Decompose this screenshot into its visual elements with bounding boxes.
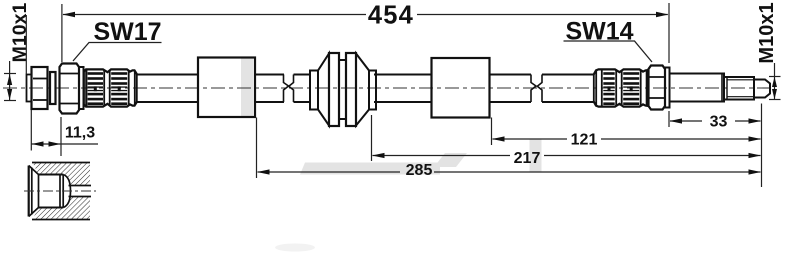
tip cap: [754, 80, 770, 98]
dim 454 extension right: [668, 3, 670, 63]
hose segment B: [255, 75, 284, 103]
dim 121 extension left: [491, 118, 493, 146]
hose break left: [284, 75, 294, 103]
left ferrule crimp bars: [88, 72, 128, 105]
svg-text:SW17: SW17: [93, 18, 161, 46]
right ferrule: [594, 69, 649, 106]
svg-text:121: 121: [571, 132, 598, 149]
svg-text:M10x1: M10x1: [9, 3, 31, 63]
dim 33 arrows: [670, 118, 683, 123]
grommet left cone: [318, 54, 329, 126]
hose segment A: [136, 75, 198, 103]
dim M10 left line: [9, 61, 11, 101]
right ferrule bottom profile: [594, 102, 649, 107]
grommet valley: [339, 60, 346, 119]
dim M10 right line: [774, 63, 776, 100]
right hex nut SW14: [649, 66, 666, 110]
left fitting step collar: [50, 72, 56, 104]
grommet right cone: [356, 54, 369, 126]
detail outline: [29, 163, 91, 220]
hose segment C: [294, 75, 312, 103]
hose segment D: [374, 75, 431, 103]
dim 11,3 line: [31, 143, 98, 145]
leader SW14: [564, 41, 653, 62]
left ferrule bottom profile: [84, 102, 137, 107]
dim 217 extension left: [371, 115, 373, 161]
hose segment E: [490, 75, 532, 103]
detail section view: [24, 163, 96, 220]
left ferrule top profile: [84, 69, 137, 74]
svg-text:33: 33: [710, 114, 728, 131]
watermark band on block1: [241, 58, 253, 117]
dim 454 arrows: [63, 12, 76, 17]
hose segment F: [542, 75, 594, 103]
svg-text:11,3: 11,3: [65, 125, 95, 142]
detail centerline: [24, 190, 96, 192]
bracket block 2: [432, 58, 490, 118]
dim 217 line: [373, 155, 761, 157]
watermark faint smudge bottom: [275, 244, 315, 252]
right ferrule rails: [601, 71, 603, 106]
dim 121 arrows: [492, 136, 505, 141]
bracket block 1: [198, 58, 255, 118]
left ferrule: [84, 69, 137, 106]
dim 217 arrows: [372, 153, 385, 158]
leader SW17: [73, 43, 162, 62]
dim 11,3 extension left: [30, 110, 32, 151]
dim 285 arrows: [257, 169, 270, 174]
M10 label stem line: [25, 15, 27, 74]
right ferrule crimp bars: [603, 72, 639, 105]
dim 33 line: [670, 120, 761, 122]
hose break right: [531, 75, 542, 103]
shaft: [670, 74, 725, 102]
centerline: [3, 87, 773, 89]
dim M10 left arrows: [7, 74, 12, 85]
dim M10 right ticks: [769, 77, 781, 100]
svg-text:M10x1: M10x1: [756, 2, 778, 63]
master right extension line: [761, 104, 763, 188]
threaded section: [724, 77, 754, 100]
dim 11,3 extension right: [60, 117, 62, 156]
svg-text:285: 285: [406, 162, 433, 179]
grommet right cylinder: [369, 71, 376, 110]
grommet rib 1: [329, 53, 339, 126]
dim 285 line: [258, 171, 761, 173]
watermark slab: [300, 163, 440, 175]
grommet rib 2: [346, 53, 356, 126]
watermark rhombus: [434, 153, 467, 167]
right ferrule top profile: [594, 69, 649, 74]
grommet left cylinder: [310, 71, 318, 110]
left ferrule rails: [103, 71, 105, 106]
dim 121 line: [493, 138, 761, 140]
detail hatch top: [33, 163, 91, 186]
dim 454 extension left: [61, 4, 63, 62]
dim M10 left ticks: [4, 74, 16, 101]
left fitting pipe tip: [27, 75, 32, 102]
dim 454 line: [63, 14, 668, 16]
svg-text:454: 454: [368, 2, 414, 30]
watermark vertical band: [530, 139, 542, 172]
detail hatch bottom: [33, 197, 91, 220]
dim 33 extension left: [668, 111, 670, 127]
dim 11,3 arrows: [32, 141, 44, 146]
right washer: [665, 68, 670, 108]
dim M10 right arrows: [772, 77, 777, 87]
left washer: [79, 67, 84, 109]
left hex nut SW17: [60, 64, 80, 114]
left fitting nut body: [32, 67, 48, 109]
dim 285 extension left: [256, 118, 258, 179]
svg-text:217: 217: [514, 150, 541, 167]
